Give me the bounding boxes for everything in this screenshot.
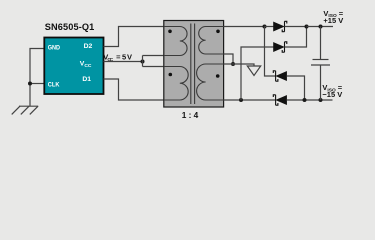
node center tap junction <box>141 60 145 64</box>
diode D3 rectifier row3 (negative rail) <box>273 71 304 100</box>
capacitor C1 <box>311 27 330 101</box>
diode D2 rectifier row2 <box>274 27 307 53</box>
node junction GND/CLK <box>28 82 32 86</box>
svg-text:V: V <box>127 53 132 62</box>
svg-text:−15 V: −15 V <box>322 90 342 99</box>
wire positive rail <box>307 26 334 28</box>
wire node B riser up to row2 <box>241 47 274 100</box>
svg-text:SN6505-Q1: SN6505-Q1 <box>45 22 95 32</box>
svg-text:D2: D2 <box>84 43 93 50</box>
svg-text:CLK: CLK <box>48 81 60 88</box>
wire D2 to transformer primary top <box>104 27 164 47</box>
transformer T1 body <box>164 21 224 108</box>
phase dot primary top <box>168 30 172 34</box>
phase dot secondary bottom <box>216 74 220 78</box>
secondary winding top <box>199 27 224 55</box>
svg-text:5: 5 <box>122 53 126 62</box>
wire center tap lower lead <box>143 66 164 68</box>
diode D1 rectifier row1 <box>265 21 307 31</box>
transformer core lines <box>190 24 192 105</box>
node capacitor top junction <box>319 25 323 29</box>
node B junction <box>239 98 243 102</box>
wire CLK pin <box>30 83 44 85</box>
svg-text:D1: D1 <box>82 76 91 83</box>
wire VCC to center tap <box>104 61 143 63</box>
node capacitor bottom junction <box>319 98 323 102</box>
wire secondary center-tap upper lead <box>224 54 233 64</box>
wire secondary center-tap to common <box>224 64 254 66</box>
wire center tap riser <box>142 56 144 67</box>
primary winding bottom <box>164 67 188 101</box>
transformer driver U1 SN6505-Q1 body <box>44 38 103 95</box>
node negative rail junction <box>303 98 307 102</box>
wire secondary top lead to node A <box>224 26 265 28</box>
wire GND pin to left vertical <box>30 49 44 106</box>
svg-text:=: = <box>116 53 121 62</box>
node secondary center tap junction <box>231 62 235 66</box>
primary winding top <box>164 27 187 56</box>
wire center tap upper lead <box>143 55 164 57</box>
secondary winding bottom <box>197 64 224 100</box>
svg-text:GND: GND <box>48 44 60 51</box>
ground isolated common triangle <box>247 66 260 76</box>
wire secondary bottom lead row4 <box>224 99 276 101</box>
phase dot secondary top <box>216 30 220 34</box>
phase dot primary bottom <box>169 73 173 77</box>
node positive rail junction <box>305 25 309 29</box>
node A junction <box>263 25 267 29</box>
svg-text:1 : 4: 1 : 4 <box>182 110 199 120</box>
svg-text:+15 V: +15 V <box>323 16 343 25</box>
diode D4 rectifier row4 (negative rail) <box>273 95 332 105</box>
wire node A riser down to row3 <box>265 27 276 77</box>
wire D1 to transformer primary bottom <box>104 79 164 100</box>
ground chassis <box>12 106 39 114</box>
svg-text:CC: CC <box>107 57 113 63</box>
